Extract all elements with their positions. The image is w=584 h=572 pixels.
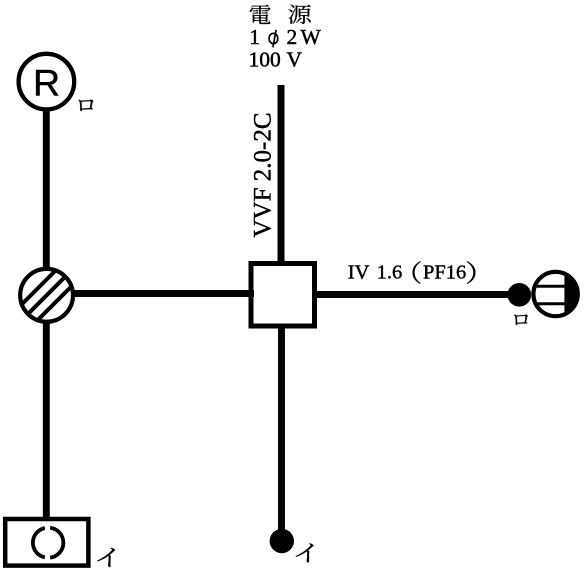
- source label 100V: [249, 48, 303, 72]
- wire outlet box to pendant stub: [278, 324, 285, 533]
- hatch line: [26, 275, 67, 316]
- wall lamp filled crescent: [564, 274, 577, 315]
- svg-text:1.6: 1.6: [377, 262, 403, 284]
- VVF junction box (hatched circle): [20, 269, 73, 322]
- svg-text:VVF 2.0-2C: VVF 2.0-2C: [250, 112, 277, 237]
- wire junction circle to outlet box: [72, 290, 254, 297]
- source label 1phi2W: [249, 25, 321, 49]
- label i (rosette): [97, 548, 115, 567]
- ceiling rosette (kakugata hikkake) rectangle: [5, 519, 88, 566]
- rosette contact arcs ( ): [33, 528, 45, 557]
- source label 源: [289, 5, 311, 24]
- wire outlet box to lamp: [312, 291, 510, 298]
- hatch line: [36, 284, 74, 322]
- wire R to junction box circle: [43, 108, 50, 270]
- svg-text:1: 1: [249, 25, 260, 49]
- label i (stub): [296, 543, 314, 562]
- wall lamp symbol circle: [533, 272, 577, 316]
- fullwidth paren close: [467, 261, 476, 284]
- fullwidth paren open: [413, 261, 421, 284]
- wire junction circle to ceiling rosette: [43, 321, 50, 519]
- svg-text:IV: IV: [348, 262, 370, 284]
- svg-text:2: 2: [287, 25, 298, 49]
- outlet box (junction): [251, 264, 315, 327]
- lamp receptacle R (ro) : circle: [19, 54, 75, 110]
- wire: power feed from source to outlet box: [278, 85, 285, 266]
- label ro (wall lamp): [514, 314, 528, 325]
- svg-text:PF16: PF16: [423, 262, 466, 284]
- label ro (lamp receptacle): [78, 100, 93, 112]
- source label 電: [250, 5, 271, 24]
- lamp connection dot: [508, 283, 532, 307]
- svg-text:R: R: [33, 62, 60, 104]
- hatch line: [20, 269, 58, 307]
- svg-text:100: 100: [249, 48, 281, 72]
- pendant stub dot: [270, 529, 294, 553]
- svg-text:V: V: [287, 48, 303, 72]
- wall lamp slit lines: [530, 285, 566, 288]
- svg-text:W: W: [301, 25, 322, 49]
- conduit label IV 1.6 (PF16): [348, 262, 467, 284]
